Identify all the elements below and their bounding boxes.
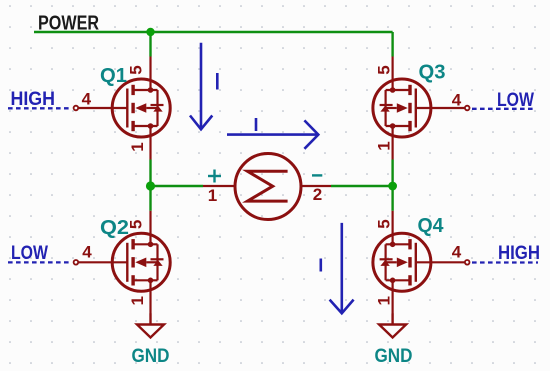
svg-text:Q3: Q3 <box>419 62 446 84</box>
svg-text:4: 4 <box>82 90 92 109</box>
motor pin 2 line <box>301 185 331 187</box>
svg-text:5: 5 <box>375 65 394 74</box>
svg-text:LOW: LOW <box>11 243 48 264</box>
wire drop to Q1 drain <box>149 32 151 57</box>
dashed line HIGH to Q1 gate <box>8 107 71 109</box>
wire POWER horizontal top <box>34 31 393 33</box>
transistor Q3 (mirrored) <box>373 57 470 160</box>
svg-text:Q1: Q1 <box>100 65 127 87</box>
svg-text:Q2: Q2 <box>100 217 129 239</box>
wire mid node to motor pin 1 <box>151 185 204 187</box>
junction right mid node <box>388 182 397 191</box>
motor sigma glyph <box>248 171 288 201</box>
wire right mid node to Q4 drain <box>391 186 393 211</box>
current label I (bottom arrow) <box>319 259 322 272</box>
ground symbol right <box>379 314 406 338</box>
wire Q1 source to mid node <box>149 160 151 187</box>
wire motor pin 2 to right mid node <box>331 185 393 187</box>
svg-text:1: 1 <box>375 141 394 150</box>
motor pin name - <box>312 174 322 176</box>
svg-text:GND: GND <box>132 346 170 367</box>
svg-text:HIGH: HIGH <box>498 243 540 264</box>
svg-text:1: 1 <box>375 296 394 305</box>
svg-text:1: 1 <box>208 186 217 205</box>
svg-text:4: 4 <box>452 91 462 110</box>
current label I (top arrow) <box>216 73 219 90</box>
current arrow right (middle) <box>227 120 318 148</box>
motor M1 body <box>235 154 301 220</box>
ground symbol left <box>137 314 164 338</box>
motor pin 1 line <box>203 185 235 187</box>
svg-text:Q4: Q4 <box>418 215 445 237</box>
svg-text:4: 4 <box>452 243 462 262</box>
svg-text:2: 2 <box>313 185 322 204</box>
svg-text:5: 5 <box>127 220 146 229</box>
svg-text:HIGH: HIGH <box>11 89 56 110</box>
wire top-right drop to Q3 drain <box>391 32 393 57</box>
junction on POWER wire <box>146 28 154 36</box>
svg-text:1: 1 <box>128 142 147 151</box>
transistor Q1 <box>74 57 171 160</box>
transistor Q2 <box>74 211 171 314</box>
dashed line LOW to Q2 gate <box>8 261 71 263</box>
motor pin name + <box>208 170 221 183</box>
wire left mid node to Q2 drain <box>149 186 151 211</box>
svg-text:GND: GND <box>375 346 413 367</box>
current label I (right arrow) <box>255 118 258 131</box>
junction left mid node <box>146 181 155 190</box>
svg-text:5: 5 <box>375 219 394 228</box>
current arrow down (bottom right) <box>330 223 354 313</box>
dashed line Q3 gate to LOW <box>472 108 535 110</box>
svg-text:1: 1 <box>128 296 147 305</box>
svg-text:4: 4 <box>82 243 92 262</box>
wire Q3 source to right mid node <box>391 160 393 187</box>
dashed line Q4 gate to HIGH <box>472 261 538 263</box>
svg-text:5: 5 <box>127 65 146 74</box>
transistor Q4 (mirrored) <box>373 211 470 314</box>
current arrow down (top middle) <box>190 43 212 130</box>
